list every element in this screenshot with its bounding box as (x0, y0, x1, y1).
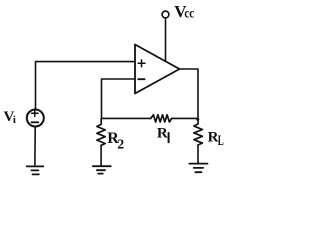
wire Vi to ground (34, 127, 36, 166)
power terminal Vcc (162, 11, 169, 18)
svg-text:R: R (157, 126, 168, 142)
svg-text:i: i (13, 114, 16, 126)
op-amp inverting input marker - (138, 78, 144, 80)
wire R1 to output node (172, 117, 198, 119)
label RL (208, 130, 224, 150)
junction output node (196, 118, 199, 121)
svg-text:L: L (218, 133, 224, 149)
op-amp U1 (135, 45, 180, 94)
label Vcc (174, 2, 194, 21)
wire Vcc to op-amp supply pin (165, 18, 167, 61)
wire op-amp output to load node (180, 69, 199, 124)
label R1 (157, 126, 168, 142)
svg-text:2: 2 (117, 137, 124, 152)
wire - input to feedback node (102, 79, 136, 119)
wire Vi source to + input (36, 62, 136, 110)
label Vi (4, 109, 16, 126)
wire R2 to ground (100, 145, 102, 165)
op-amp noninverting input marker + (138, 60, 145, 67)
svg-text:cc: cc (184, 6, 194, 21)
wire feedback node to R1 (102, 117, 151, 119)
label R1 subscript 1 (168, 133, 170, 142)
resistor R1 (151, 115, 172, 122)
resistor R2 (97, 119, 105, 146)
label R2 (107, 130, 124, 152)
source Vi (27, 110, 44, 127)
resistor RL (194, 124, 203, 145)
ground below R2 (93, 166, 111, 173)
ground below RL (189, 164, 207, 173)
wire RL to ground (197, 145, 199, 163)
ground below Vi (27, 166, 44, 174)
